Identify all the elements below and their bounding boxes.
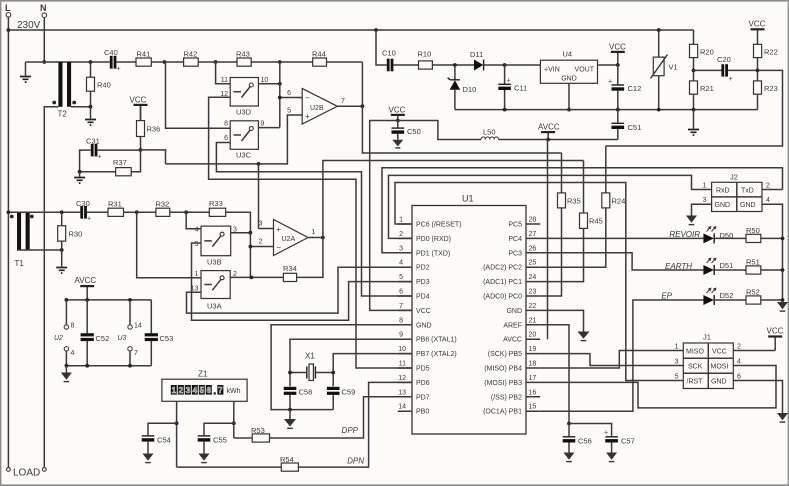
wire PC4 to LED D50 row: [540, 237, 703, 239]
wire AVCC drop to U1 pin20: [547, 140, 549, 340]
svg-text:R52: R52: [746, 288, 760, 297]
svg-text:V1: V1: [669, 63, 678, 72]
node junction C31/R37/ground: [78, 170, 82, 174]
svg-text:1: 1: [675, 344, 679, 351]
svg-text:R41: R41: [137, 50, 151, 59]
node junction U3B.3 on feedback vertical: [249, 231, 253, 235]
power VCC above C12: [609, 43, 626, 66]
node junction U3.7 bottom: [128, 364, 132, 368]
svg-text:13: 13: [398, 389, 406, 396]
svg-text:PD3: PD3: [416, 279, 430, 286]
analog switch U3A: [191, 271, 237, 311]
svg-text:VCC: VCC: [609, 43, 626, 52]
node junction U2A output: [321, 236, 325, 240]
svg-text:L: L: [5, 3, 11, 13]
svg-text:N: N: [40, 3, 47, 13]
svg-text:1: 1: [399, 217, 403, 224]
wire GND pin22 to ground arrow: [540, 310, 583, 331]
node junction U4 GND on rail: [567, 108, 571, 112]
wire AREF pin21 to C56/C57: [540, 325, 569, 424]
svg-text:27: 27: [529, 231, 537, 238]
svg-text:C53: C53: [160, 334, 174, 343]
resistor R30: [58, 212, 83, 250]
capacitor C53: [145, 300, 174, 366]
svg-text:PD4: PD4: [416, 294, 430, 301]
svg-text:7: 7: [134, 350, 138, 357]
capacitor C40: [91, 48, 137, 73]
node bias tap to U2A plus: [257, 162, 261, 166]
resistor R35 (U2B out to ADC0): [540, 153, 581, 296]
wire U3C pin6 route to U1 PD4: [216, 143, 412, 297]
svg-text:R24: R24: [612, 197, 626, 206]
wire U2B output: [337, 105, 362, 107]
svg-text:16: 16: [529, 389, 537, 396]
svg-text:U3: U3: [118, 335, 127, 342]
svg-text:AVCC: AVCC: [503, 337, 522, 344]
wire C31 left to R37 left: [80, 150, 91, 172]
diode D11: [470, 50, 505, 71]
svg-text:C54: C54: [157, 436, 171, 445]
resistor R54: [177, 455, 299, 471]
wire U3B pin3: [231, 232, 251, 234]
svg-text:(/SS) PB2: (/SS) PB2: [491, 394, 522, 401]
wire T2 bottom-left to LOAD rail: [44, 107, 58, 468]
wire DPN route to U1 PD6: [298, 382, 412, 467]
svg-text:+: +: [604, 430, 608, 437]
capacitor C30: [76, 199, 108, 223]
svg-text:(ADC1) PC1: (ADC1) PC1: [483, 279, 522, 286]
svg-text:C40: C40: [104, 48, 118, 57]
node junction AVCC/L50 line: [546, 138, 550, 142]
ground arrow LED rail: [777, 302, 788, 311]
wire /RESET route J1.5 to U1 pin1: [395, 183, 683, 381]
wire T1 top rail y212.3: [8, 211, 80, 213]
resistor R20: [690, 44, 714, 81]
svg-text:(SCK) PB5: (SCK) PB5: [488, 351, 522, 358]
wire ground rail y109.6: [455, 109, 758, 111]
svg-text:R33: R33: [209, 199, 223, 208]
svg-text:PD6: PD6: [416, 380, 430, 387]
svg-text:R20: R20: [700, 48, 714, 57]
node junction R50 on rail: [781, 237, 785, 241]
svg-text:25: 25: [529, 260, 537, 267]
node junction R22/R23/C20: [756, 69, 760, 73]
resistor R22: [754, 44, 778, 81]
wire U3D pin10: [258, 83, 279, 85]
wire U2A minus input: [250, 246, 273, 248]
svg-text:R22: R22: [764, 48, 778, 57]
svg-text:TxD: TxD: [741, 188, 754, 195]
svg-text:J1: J1: [703, 333, 711, 342]
node junction Z1 right / C55: [232, 421, 236, 425]
svg-text:GND: GND: [561, 76, 577, 83]
wire XTAL2 pin10 to X1 right: [333, 354, 412, 387]
wire TXD route J2.2 to U1 pin3: [382, 168, 783, 253]
node junction U2A minus: [249, 245, 253, 249]
svg-text:5: 5: [287, 108, 291, 115]
svg-text:D51: D51: [720, 261, 734, 270]
svg-text:10: 10: [398, 346, 406, 353]
wire J1.2 to VCC: [733, 350, 775, 352]
svg-text:C58: C58: [299, 388, 313, 397]
regulator U4: [505, 50, 618, 110]
resistor R41: [136, 50, 165, 67]
svg-text:R50: R50: [746, 226, 760, 235]
zener diode D10: [448, 65, 477, 110]
svg-text:11: 11: [399, 361, 406, 368]
svg-text:4: 4: [71, 350, 75, 357]
svg-text:12: 12: [398, 375, 406, 382]
svg-text:U3D: U3D: [236, 108, 252, 117]
wire U3D pin12 route to U1 PD5: [209, 97, 412, 368]
node junction C58 bottom: [288, 408, 292, 412]
ground arrow pin22: [578, 332, 590, 341]
svg-text:J2: J2: [730, 173, 738, 182]
svg-text:PD2: PD2: [416, 265, 430, 272]
connector J2: [703, 173, 770, 212]
svg-text:9: 9: [399, 332, 403, 339]
svg-text:/RST: /RST: [687, 379, 704, 386]
svg-text:6: 6: [224, 135, 228, 142]
resistor R33: [209, 199, 250, 233]
svg-text:(ADC0) PC0: (ADC0) PC0: [483, 294, 522, 301]
svg-text:R43: R43: [236, 50, 250, 59]
node junction L/top-rail: [6, 28, 10, 32]
svg-text:U4: U4: [563, 50, 573, 59]
microcontroller U1: [412, 194, 526, 435]
svg-text:17: 17: [529, 375, 537, 382]
svg-text:LOAD: LOAD: [13, 468, 40, 479]
svg-text:PB6 (XTAL1): PB6 (XTAL1): [416, 337, 457, 344]
svg-text:15: 15: [529, 404, 537, 411]
wire U2B minus input: [280, 97, 302, 99]
svg-text:3: 3: [675, 359, 679, 366]
wire N drop to T2: [43, 18, 45, 63]
svg-text:PC3: PC3: [508, 250, 522, 257]
svg-text:U1: U1: [462, 194, 474, 204]
resistor R51: [746, 258, 783, 275]
svg-text:C10: C10: [382, 49, 396, 58]
node junction Z1 left / C54: [175, 421, 179, 425]
wire branch to C54: [148, 423, 177, 435]
svg-text:VCC: VCC: [749, 20, 766, 29]
resistor R37: [113, 150, 141, 176]
op-amp U2B: [287, 89, 345, 125]
wire PB1 pin15 to EP LED row: [540, 300, 703, 411]
wire branch to C57: [569, 424, 612, 436]
svg-text:14: 14: [134, 323, 142, 330]
wire SCK pin19 to J1.3: [540, 354, 683, 366]
power VCC above C50: [389, 106, 406, 121]
svg-text:EP: EP: [661, 292, 672, 301]
node junction U3A.2/R34/feedback: [250, 276, 254, 280]
svg-text:D10: D10: [463, 85, 477, 94]
svg-text:T2: T2: [58, 110, 68, 119]
U1 right inner pin names: [483, 222, 522, 416]
resistor R50: [746, 226, 783, 243]
svg-text:20: 20: [529, 332, 537, 339]
wire T1 bottom to R30 bottom: [17, 249, 62, 251]
transformer T1: [10, 212, 34, 268]
wire LED ground rail from J2.4: [762, 204, 783, 302]
wire top rail corner to R20: [693, 30, 695, 45]
svg-text:9: 9: [261, 121, 265, 128]
svg-text:4: 4: [737, 359, 741, 366]
svg-text:T1: T1: [15, 259, 25, 268]
power VCC above J1.2: [767, 327, 784, 351]
resistor R34: [283, 238, 323, 282]
svg-text:3: 3: [259, 221, 263, 228]
node junction R42/R43 (to U3D pin11): [214, 60, 218, 64]
node junction pin10 on R43 vertical: [278, 82, 282, 86]
node junction C52 bottom: [85, 364, 89, 368]
svg-text:5: 5: [200, 386, 205, 395]
power AVCC on L50 line: [538, 123, 560, 140]
svg-text:(MISO) PB4: (MISO) PB4: [484, 366, 522, 373]
svg-text:R42: R42: [184, 50, 198, 59]
svg-text:18: 18: [529, 361, 537, 368]
wire drop to C10: [376, 30, 387, 65]
svg-text:U2A: U2A: [282, 236, 296, 243]
node L terminal: [5, 3, 11, 17]
svg-text:U3C: U3C: [236, 151, 252, 160]
wire MISO pin18 to J1.1: [540, 351, 683, 369]
svg-text:GND: GND: [711, 379, 727, 386]
LED D52: [703, 288, 746, 305]
resistor R31: [108, 200, 156, 217]
svg-text:EARTH: EARTH: [665, 262, 692, 271]
capacitor C58: [284, 387, 313, 410]
svg-text:R34: R34: [283, 264, 297, 273]
svg-text:GND: GND: [416, 322, 432, 329]
wire bias rail to U2B plus: [166, 115, 303, 164]
svg-text:(OC1A) PB1: (OC1A) PB1: [483, 409, 522, 416]
counter Z1: [162, 370, 247, 402]
ground below R30: [56, 250, 67, 273]
resistor R32: [156, 200, 210, 217]
svg-text:R51: R51: [746, 258, 760, 267]
node junction C56 top: [567, 422, 571, 426]
svg-text:D11: D11: [470, 50, 483, 59]
svg-text:3: 3: [186, 386, 191, 395]
capacitor C51: [612, 110, 642, 140]
U1 left inner pin names: [416, 222, 462, 416]
svg-text:R30: R30: [69, 230, 83, 239]
node junction AVCC on top rail: [85, 298, 89, 302]
capacitor C52: [81, 300, 110, 366]
node junction T1/R30: [60, 210, 64, 214]
resistor R43: [216, 50, 280, 67]
svg-text:U3A: U3A: [207, 302, 222, 311]
svg-text:GND: GND: [506, 308, 522, 315]
wire main top rail y30: [8, 29, 693, 31]
svg-text:AVCC: AVCC: [538, 123, 560, 132]
wire J1.6 GND to ground arrow: [733, 381, 782, 414]
wire U2B output drop and route to R35: [362, 106, 561, 153]
svg-text:VCC: VCC: [130, 96, 147, 105]
svg-text:PC4: PC4: [508, 236, 522, 243]
svg-text:C12: C12: [628, 84, 642, 93]
svg-text:5: 5: [675, 374, 679, 381]
wire PC3 to EARTH row with step: [540, 253, 703, 270]
svg-text:C20: C20: [717, 55, 731, 64]
node junction C11 on rail: [503, 108, 507, 112]
node junction VCC/C50: [396, 119, 400, 123]
svg-text:AREF: AREF: [503, 322, 522, 329]
svg-text:+: +: [305, 112, 310, 121]
U3 power pin 14: [118, 300, 142, 342]
node junction R21 bottom on rail: [692, 108, 696, 112]
svg-text:6: 6: [287, 90, 291, 97]
svg-text:2: 2: [737, 344, 741, 351]
wire Z1 right lead down: [233, 401, 235, 438]
svg-text:R37: R37: [113, 158, 127, 167]
node junction R31/R32 (to U3A pin1): [135, 210, 139, 214]
ground arrow crystal rail: [284, 410, 296, 429]
svg-text:+: +: [608, 79, 612, 86]
node junction V1 bottom: [657, 108, 661, 112]
svg-text:R36: R36: [147, 125, 161, 134]
wire DPP route to U1 PD7: [270, 397, 413, 438]
svg-text:+: +: [87, 216, 91, 223]
svg-text:VCC: VCC: [767, 327, 784, 336]
ground at T2 left: [20, 62, 31, 82]
wire U2A output route to R45: [323, 161, 584, 238]
svg-text:(ADC2) PC2: (ADC2) PC2: [483, 265, 522, 272]
svg-text:7: 7: [341, 98, 345, 105]
svg-text:Z1: Z1: [198, 370, 208, 379]
svg-text:DPN: DPN: [347, 457, 364, 466]
U1 left pin stubs: [398, 224, 412, 411]
power VCC above R22: [749, 20, 766, 45]
node junction T2/R40 bottom: [89, 105, 93, 109]
capacitor C54: [142, 436, 171, 463]
svg-text:2: 2: [766, 183, 770, 190]
node junction C12 on rail: [616, 108, 620, 112]
svg-text:R35: R35: [567, 197, 581, 206]
svg-text:PB7 (XTAL2): PB7 (XTAL2): [416, 351, 457, 358]
capacitor C50: [392, 121, 421, 148]
svg-text:C55: C55: [213, 436, 227, 445]
wire branch to C55: [204, 423, 234, 435]
svg-text:X1: X1: [305, 352, 315, 361]
svg-text:7: 7: [218, 386, 223, 395]
analog switch U3D: [220, 77, 268, 117]
resistor R10: [418, 50, 475, 70]
wire T2 top rail y62: [26, 61, 91, 63]
svg-text:SCK: SCK: [688, 364, 703, 371]
wire U3B pin4 from R32/R33 junction: [186, 212, 201, 228]
svg-text:MOSI: MOSI: [711, 364, 729, 371]
U2 power pin 8: [54, 300, 75, 342]
svg-text:R21: R21: [700, 84, 714, 93]
varistor V1: [651, 30, 678, 110]
node junction R30 bottom/ground: [60, 248, 64, 252]
svg-text:7: 7: [399, 303, 403, 310]
wire J2.3 GND stub: [692, 204, 712, 215]
svg-text:PB0: PB0: [416, 409, 429, 416]
svg-text:VCC: VCC: [712, 349, 727, 356]
node junction ground bottom rail: [65, 364, 69, 368]
wire crystal ground rail from U1 pin8: [271, 325, 412, 410]
wire R43-right vertical to U3C pin9: [279, 62, 281, 128]
svg-text:3: 3: [399, 245, 403, 252]
resistor R53: [234, 426, 270, 442]
svg-text:11: 11: [221, 77, 228, 84]
power VCC above R36: [130, 96, 148, 121]
capacitor C10: [382, 49, 419, 72]
ground arrow J2.3: [686, 216, 697, 225]
connector J1: [675, 333, 741, 389]
svg-text:R23: R23: [764, 84, 778, 93]
node junction R41/R42 (to U3C pin8): [163, 60, 167, 64]
svg-text:PD1 (TXD): PD1 (TXD): [416, 250, 450, 257]
capacitor C31: [86, 137, 102, 161]
analog switch U3C: [224, 121, 264, 160]
svg-text:R10: R10: [418, 50, 432, 59]
svg-text:U3B: U3B: [207, 258, 222, 267]
node junction V1 top: [657, 28, 661, 32]
svg-text:4: 4: [766, 197, 770, 204]
svg-text:PD0 (RXD): PD0 (RXD): [416, 236, 451, 243]
node junction X1 left: [288, 371, 292, 375]
svg-text:DPP: DPP: [342, 426, 359, 435]
U1 right pin numbers: [529, 217, 537, 411]
capacitor C59: [327, 387, 355, 410]
svg-text:−: −: [276, 243, 281, 252]
ground below C31/R37: [74, 172, 85, 183]
resistor R21: [690, 81, 714, 110]
wire R22-node to R24 top: [606, 70, 783, 146]
svg-text:C57: C57: [621, 437, 635, 446]
svg-text:4: 4: [193, 386, 198, 395]
svg-text:D52: D52: [720, 291, 734, 300]
svg-text:R44: R44: [312, 50, 326, 59]
node N terminal: [40, 3, 47, 18]
svg-text:GND: GND: [740, 202, 756, 209]
op-amp U2A: [259, 220, 316, 256]
node junction R52 on rail: [781, 298, 785, 302]
svg-text:AVCC: AVCC: [75, 276, 97, 285]
node junction top-rail to C10: [374, 28, 378, 32]
wire bypass top rail: [66, 299, 151, 301]
node junction N/T2 rail: [42, 60, 46, 64]
node junction R51 on rail: [781, 268, 785, 272]
wire U2A output: [308, 237, 323, 239]
svg-text:REVOIR: REVOIR: [669, 230, 700, 239]
wire bias drop to U2A plus: [259, 164, 274, 229]
node junction R20/R21/C20: [692, 69, 696, 73]
wire MOSI pin17 to J1.4: [540, 366, 776, 408]
wire U3A pin2 to R34: [230, 276, 283, 278]
svg-text:+: +: [729, 76, 733, 83]
wire bias jog to bias rail: [141, 150, 166, 164]
svg-text:(MOSI) PB3: (MOSI) PB3: [484, 380, 522, 387]
svg-text:1: 1: [172, 386, 177, 395]
svg-text:PD7: PD7: [416, 394, 430, 401]
wire XTAL1 pin9 to X1 left: [290, 339, 412, 386]
wire U3C pin9: [258, 127, 279, 129]
capacitor C55: [198, 436, 227, 463]
power AVCC bypass header: [75, 276, 97, 300]
resistor R40: [87, 62, 111, 107]
svg-text:14: 14: [398, 404, 406, 411]
svg-text:R31: R31: [108, 200, 122, 209]
ground below rail at R21: [688, 110, 699, 136]
svg-text:kWh: kWh: [227, 388, 241, 395]
node junction U2B minus on R43 vertical: [278, 96, 282, 100]
svg-text:8: 8: [399, 317, 403, 324]
